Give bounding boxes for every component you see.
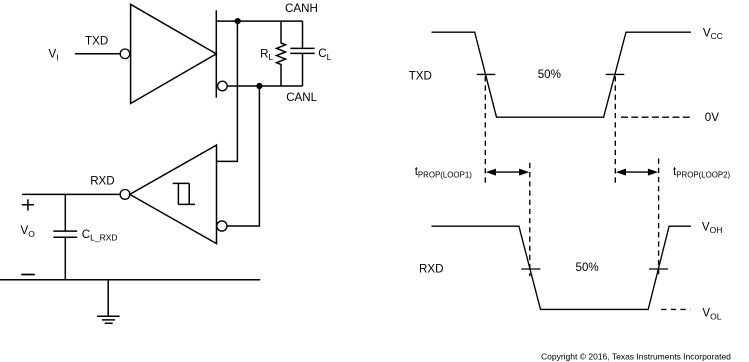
tPROP LOOP1 label — [415, 165, 473, 179]
svg-text:tPROP(LOOP2): tPROP(LOOP2) — [673, 165, 731, 179]
wire CANH to receiver top input — [217, 21, 238, 161]
wire TXD input — [75, 53, 120, 55]
RXD rising edge 50% tick — [649, 268, 668, 270]
svg-text:50%: 50% — [576, 261, 599, 274]
copyright notice — [541, 352, 731, 362]
svg-text:Copyright © 2016, Texas Instru: Copyright © 2016, Texas Instruments Inco… — [541, 352, 731, 362]
op-amp U2 receiver triangle — [130, 145, 217, 244]
svg-text:VO: VO — [21, 224, 36, 239]
receiver bottom input bubble — [217, 221, 227, 231]
node VCC label — [703, 26, 723, 41]
tPROP LOOP2 label — [673, 165, 731, 179]
node RXD label — [90, 175, 114, 188]
wire CANL to receiver bottom input — [227, 86, 259, 226]
dashed line L3 TXD rise crossing — [614, 76, 616, 183]
dashed line L4 RXD rise crossing — [658, 159, 660, 277]
node VI input label — [49, 48, 59, 63]
RXD waveform — [432, 226, 691, 309]
svg-text:CANH: CANH — [285, 2, 318, 15]
svg-text:TXD: TXD — [409, 70, 432, 83]
svg-text:RXD: RXD — [419, 262, 443, 275]
driver output bar — [215, 10, 217, 97]
wire CANL rail — [227, 85, 302, 87]
svg-text:VI: VI — [49, 48, 59, 63]
svg-text:VOL: VOL — [702, 307, 721, 322]
svg-text:TXD: TXD — [85, 35, 108, 48]
svg-text:50%: 50% — [538, 68, 561, 81]
svg-text:0V: 0V — [705, 111, 719, 124]
op-amp U1 driver triangle — [131, 4, 217, 103]
svg-text:VOH: VOH — [702, 220, 722, 235]
node CANH junction dot — [235, 18, 241, 24]
capacitor CL_RXD label — [82, 228, 118, 243]
resistor RL label — [260, 47, 273, 62]
capacitor CL — [290, 21, 314, 86]
tPROP LOOP2 arrow — [616, 169, 658, 176]
svg-text:CL_RXD: CL_RXD — [82, 228, 118, 243]
TXD waveform — [432, 32, 691, 117]
svg-text:RL: RL — [260, 47, 273, 62]
node plus terminal — [22, 199, 34, 210]
node VOH label — [702, 220, 722, 235]
wire CANH rail — [216, 20, 302, 22]
receiver output bubble RXD — [120, 190, 130, 200]
node VOL label — [702, 307, 721, 322]
RXD falling edge 50% tick — [521, 268, 540, 270]
node RXD waveform label — [419, 262, 443, 275]
svg-text:CANL: CANL — [286, 91, 317, 104]
dashed line L2 RXD fall crossing — [529, 163, 531, 276]
node CANH label — [285, 2, 318, 15]
wire ground rail — [0, 279, 260, 281]
node TXD label — [85, 35, 108, 48]
VOL dashed level line — [661, 308, 690, 310]
resistor RL — [277, 21, 286, 86]
TXD rising edge 50% tick — [606, 73, 625, 75]
node TXD waveform label — [409, 70, 432, 83]
svg-text:VCC: VCC — [703, 26, 723, 41]
node CANL junction dot — [256, 83, 262, 89]
TXD 50% label — [538, 68, 561, 81]
TXD falling edge 50% tick — [477, 73, 496, 75]
node CANL label — [286, 91, 317, 104]
svg-text:tPROP(LOOP1): tPROP(LOOP1) — [415, 165, 473, 179]
svg-text:RXD: RXD — [90, 175, 114, 188]
capacitor CL_RXD — [53, 194, 77, 279]
RXD 50% label — [576, 261, 599, 274]
svg-text:CL: CL — [318, 47, 331, 62]
tPROP LOOP1 arrow — [486, 169, 530, 176]
receiver hysteresis symbol — [173, 183, 195, 204]
capacitor CL label — [318, 47, 331, 62]
dashed line L1 TXD fall crossing — [484, 76, 486, 183]
driver output bubble CANL — [218, 81, 228, 91]
node VO label — [21, 224, 36, 239]
node 0V label — [705, 111, 719, 124]
wire RXD output — [22, 193, 120, 195]
node minus terminal — [21, 274, 35, 276]
ground — [97, 280, 120, 323]
0V dashed level line — [621, 116, 690, 118]
driver input bubble — [120, 49, 130, 59]
